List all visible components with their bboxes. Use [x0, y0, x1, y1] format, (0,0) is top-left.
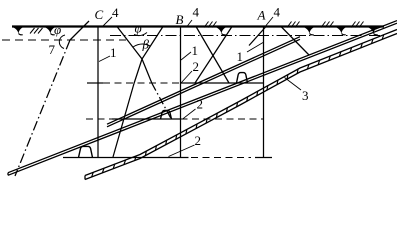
svg-text:A: A: [257, 8, 266, 23]
svg-text:C: C: [95, 7, 104, 22]
svg-text:1: 1: [237, 49, 244, 64]
svg-text:β: β: [142, 37, 150, 52]
svg-text:7: 7: [49, 42, 56, 57]
svg-text:2: 2: [193, 59, 200, 74]
svg-text:4: 4: [112, 5, 119, 20]
svg-text:4: 4: [274, 5, 281, 20]
svg-text:1: 1: [110, 45, 117, 60]
svg-text:3: 3: [302, 88, 309, 103]
svg-text:φ: φ: [54, 22, 61, 37]
svg-text:2: 2: [195, 133, 202, 148]
svg-text:2: 2: [197, 97, 204, 112]
svg-text:φ: φ: [135, 21, 142, 36]
svg-text:1: 1: [192, 43, 199, 58]
svg-text:B: B: [176, 12, 184, 27]
svg-text:4: 4: [193, 5, 200, 20]
